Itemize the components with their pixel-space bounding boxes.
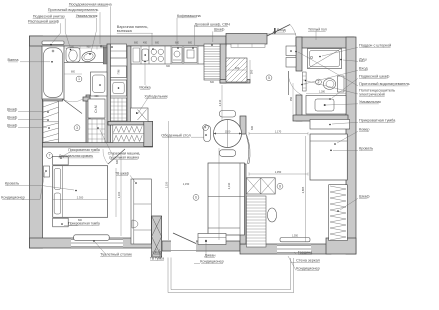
closet bottom label — [152, 249, 161, 255]
svg-text:600: 600 — [134, 42, 139, 45]
leader loop inner — [171, 258, 291, 290]
svg-text:Ст.М: Ст.М — [94, 105, 98, 113]
bottom wall bedroom1 — [30, 238, 153, 248]
bathroom1 top dims — [64, 47, 107, 50]
tv unit label — [115, 172, 137, 184]
svg-text:2,300: 2,300 — [77, 195, 84, 199]
svg-text:Ковер: Ковер — [359, 128, 370, 132]
dressing table — [74, 235, 110, 241]
svg-text:Кондиционер: Кондиционер — [1, 196, 24, 200]
bed bedroom1 — [53, 166, 108, 218]
svg-text:600: 600 — [188, 42, 193, 45]
dressing table label — [93, 240, 132, 256]
svg-text:2,865: 2,865 — [301, 186, 305, 193]
washer closet label1 — [108, 152, 141, 156]
window bedroom1 — [71, 239, 123, 248]
svg-text:Кондиционер: Кондиционер — [296, 267, 319, 271]
appliance column shelves — [111, 98, 127, 121]
closet label L2 — [7, 116, 49, 121]
svg-text:2: 2 — [318, 80, 320, 84]
sofa — [208, 163, 245, 235]
hob label line1 — [117, 25, 149, 29]
svg-text:Вход: Вход — [359, 67, 368, 71]
sink kitchen label — [139, 61, 151, 90]
window bedroom2 — [277, 245, 311, 254]
wall-hung toilet bathroom1 — [66, 48, 80, 63]
svg-text:6: 6 — [195, 196, 197, 200]
svg-text:950: 950 — [290, 96, 293, 101]
left exterior wall — [30, 36, 43, 248]
shower label — [340, 58, 366, 62]
svg-text:600: 600 — [235, 66, 240, 70]
top exterior wall — [30, 36, 227, 46]
tv bench bottom — [198, 234, 226, 245]
dishwasher — [133, 48, 140, 62]
svg-text:1100: 1100 — [225, 129, 231, 133]
svg-text:ПМ: ПМ — [117, 69, 121, 74]
ac bedroom2 label — [288, 256, 320, 271]
svg-text:1,150: 1,150 — [164, 181, 168, 188]
bedroom2 desk shelves — [246, 196, 266, 247]
bedside table top — [53, 156, 68, 165]
svg-text:электрический: электрический — [359, 93, 385, 97]
bathroom2 left wall upper — [296, 37, 302, 71]
bedroom1 room number — [47, 153, 53, 159]
svg-text:Умывальник: Умывальник — [76, 14, 98, 18]
coffee machine cabinet — [184, 48, 197, 63]
svg-text:Ванна: Ванна — [8, 58, 20, 62]
dishwasher label — [69, 2, 113, 48]
svg-text:Кровать: Кровать — [359, 147, 373, 151]
oven — [172, 48, 182, 63]
washing machine closet — [88, 99, 105, 118]
leader loop outer — [168, 258, 294, 293]
svg-text:Прикроватная тумба: Прикроватная тумба — [359, 119, 396, 123]
air conditioner bedroom1 — [44, 166, 50, 177]
svg-text:1,170: 1,170 — [275, 129, 282, 133]
hall room number circle — [74, 125, 80, 131]
right exterior wall — [346, 37, 356, 254]
bedroom2 wardrobe — [329, 185, 348, 241]
warm floor label — [308, 28, 327, 41]
bedside1 bottom label — [61, 222, 100, 226]
curtain label — [294, 251, 313, 255]
bedroom2 left wall upper — [240, 116, 246, 134]
washer closet label2 — [97, 127, 139, 159]
bed bedroom2 — [310, 134, 347, 180]
refrigerator — [131, 108, 149, 122]
svg-text:ТВ тумба: ТВ тумба — [150, 257, 164, 261]
water heater boxes — [286, 46, 296, 67]
svg-text:вытяжка: вытяжка — [117, 29, 133, 33]
bathroom2 interior dim — [306, 93, 346, 95]
kitchen cab label — [211, 28, 224, 46]
wall deco label — [291, 259, 320, 263]
bottom right corner block — [326, 238, 356, 254]
corridor dimension lines — [169, 85, 223, 240]
svg-text:7: 7 — [49, 154, 51, 158]
washing machine bathroom1 — [91, 72, 108, 96]
svg-text:Шкаф: Шкаф — [7, 116, 17, 120]
svg-text:450: 450 — [143, 42, 148, 45]
svg-text:520: 520 — [70, 45, 75, 48]
svg-text:Поддон с шторкой: Поддон с шторкой — [359, 44, 391, 48]
dishwasher box — [111, 66, 127, 78]
closet label L1 — [7, 108, 49, 113]
svg-text:Шкаф: Шкаф — [7, 124, 17, 128]
svg-text:Прикроватная тумба: Прикроватная тумба — [68, 148, 100, 152]
hob with 4 burners — [151, 49, 163, 61]
svg-text:600: 600 — [116, 159, 119, 164]
dining table label — [161, 134, 206, 138]
washbasin label top — [76, 14, 98, 55]
wall cab label — [329, 75, 389, 100]
svg-text:ТВ шкаф: ТВ шкаф — [115, 172, 129, 176]
svg-text:Подвесной шкаф: Подвесной шкаф — [359, 75, 389, 79]
bedroom2 headboard shelf — [310, 120, 350, 130]
bathroom1 kitchen dividing wall — [127, 46, 131, 146]
svg-text:Шкаф: Шкаф — [152, 251, 161, 255]
bathroom1 counter — [64, 61, 107, 63]
bathroom2 vanity — [306, 96, 346, 115]
bedroom2 dimension lines — [249, 134, 308, 242]
svg-text:300: 300 — [166, 65, 171, 68]
svg-text:Проточный водонагреватель: Проточный водонагреватель — [359, 82, 410, 86]
entry wall vent strip — [231, 44, 265, 47]
entrance door — [267, 25, 296, 37]
balcony door opening living — [171, 233, 196, 252]
svg-text:Шкаф: Шкаф — [359, 195, 369, 199]
ac living label — [194, 260, 224, 264]
entry closet dims — [228, 60, 250, 80]
toilet bathroom2 — [323, 76, 344, 92]
ac label left — [1, 170, 47, 199]
svg-text:Обеденный стол: Обеденный стол — [161, 134, 190, 138]
svg-text:1,280: 1,280 — [319, 91, 326, 94]
hob label underline and leader — [117, 32, 153, 34]
room number 2 circle — [316, 79, 322, 85]
dining chairs — [204, 111, 236, 157]
svg-text:Проточный водонагреватель: Проточный водонагреватель — [48, 8, 99, 12]
bed1 interior label — [59, 154, 94, 158]
svg-text:1: 1 — [78, 77, 80, 81]
water heater label — [48, 8, 102, 47]
svg-text:сушильная машина: сушильная машина — [109, 156, 139, 160]
sofa label — [205, 241, 216, 258]
entry2 label — [301, 67, 368, 86]
bathtub — [42, 46, 64, 99]
bedroom2 door leaf — [247, 135, 251, 164]
bottom wall living room — [162, 241, 240, 251]
kitchen sink — [142, 49, 149, 61]
desk chair — [267, 208, 276, 222]
dining room number circle — [203, 125, 209, 131]
svg-text:Посудомоечная машина: Посудомоечная машина — [69, 2, 113, 6]
svg-text:Гардина: Гардина — [298, 251, 313, 255]
bedroom2 windowsill table — [280, 238, 310, 242]
entry closet hatched — [226, 58, 247, 82]
bedroom2 dresser X — [246, 178, 275, 194]
bedroom2 room number — [277, 183, 283, 189]
svg-text:Диван: Диван — [205, 254, 216, 258]
oven label — [192, 23, 230, 49]
svg-text:1,150: 1,150 — [183, 182, 190, 186]
dining table — [214, 120, 242, 148]
bedroom1 door leaf — [103, 149, 125, 164]
washing closet left wall — [86, 95, 90, 143]
kitchen counter — [131, 46, 220, 64]
entrance label — [277, 28, 286, 32]
svg-text:600: 600 — [251, 125, 254, 130]
tv wardrobe unit — [131, 179, 151, 244]
carpet label — [334, 128, 369, 145]
duct shaft dark strip — [103, 47, 107, 64]
bathroom1 right wall — [107, 44, 111, 146]
shoe closet right block — [144, 121, 153, 146]
bathroom1 shelf — [42, 41, 64, 44]
washbasin2 label — [324, 100, 381, 106]
heater2 label — [295, 51, 409, 86]
hall wardrobe hatched — [43, 101, 59, 143]
hob label line2 — [117, 29, 133, 33]
entrance threshold line — [267, 33, 296, 35]
svg-text:Прикроватная тумба: Прикроватная тумба — [68, 222, 100, 226]
svg-text:Шкаф: Шкаф — [7, 108, 17, 112]
kitchen right wall — [220, 44, 226, 83]
tv bench bottom label — [150, 249, 164, 261]
bed1 label left — [5, 182, 77, 192]
svg-text:Кофемашина: Кофемашина — [177, 14, 202, 18]
towel rail label1 — [359, 89, 395, 93]
svg-text:1,100: 1,100 — [117, 191, 121, 198]
shower tray label — [319, 44, 391, 58]
shower tray — [308, 49, 342, 69]
svg-text:Вход: Вход — [277, 28, 286, 32]
kitchen tall pantry hatched — [204, 44, 220, 80]
hall bottom wall — [43, 143, 153, 148]
bedroom1 dimensions — [53, 152, 121, 236]
svg-text:Подвесной унитаз: Подвесной унитаз — [33, 15, 65, 19]
entry corridor dim — [292, 83, 294, 114]
fridge label — [136, 95, 168, 115]
washbasin bathroom1 — [81, 50, 97, 63]
svg-text:Умывальник: Умывальник — [359, 100, 381, 104]
bath label — [8, 58, 53, 63]
svg-text:5: 5 — [268, 76, 270, 80]
bedroom2 top dim ticks — [249, 132, 308, 176]
swing cabinet label — [28, 19, 61, 45]
bathroom2 door — [288, 71, 302, 95]
shoe cabinet zigzag — [113, 125, 144, 143]
svg-text:600: 600 — [210, 81, 215, 84]
bathroom2 bottom wall — [293, 115, 348, 121]
svg-text:600: 600 — [95, 95, 100, 98]
bathroom1 door leaf — [63, 99, 84, 114]
svg-text:Двухспальная кровать: Двухспальная кровать — [59, 154, 94, 158]
svg-text:620: 620 — [100, 45, 105, 48]
svg-text:4: 4 — [205, 126, 207, 130]
wardrobe2 label — [337, 195, 369, 212]
svg-text:2,130: 2,130 — [227, 182, 231, 189]
bathroom1 bottom wall right stub — [83, 97, 90, 101]
svg-text:3: 3 — [76, 126, 78, 130]
svg-text:Стена зеркал: Стена зеркал — [296, 259, 320, 263]
svg-text:800: 800 — [78, 219, 83, 222]
room number 1 circle — [76, 76, 82, 82]
living room number circle — [193, 195, 199, 201]
bottom wall bedroom2 — [240, 244, 331, 254]
svg-text:2,410: 2,410 — [218, 99, 222, 106]
bedside2 label — [329, 119, 396, 126]
svg-text:Кондиционер: Кондиционер — [200, 260, 223, 264]
entrance arrow — [273, 28, 277, 34]
entry top wall — [226, 34, 267, 45]
svg-text:Тёплый пол: Тёплый пол — [308, 28, 327, 32]
svg-text:Душ: Душ — [359, 58, 367, 62]
bed2 label — [330, 147, 373, 152]
svg-text:1,550: 1,550 — [292, 235, 299, 238]
bathroom2 left wall lower — [296, 95, 302, 121]
washer dryer lower box — [111, 80, 127, 96]
bedside1 top label — [60, 148, 100, 159]
svg-text:800: 800 — [71, 71, 76, 74]
closet label L3 — [7, 124, 50, 129]
entry bottom wall — [220, 80, 250, 84]
svg-text:Духовой шкаф, СВЧ: Духовой шкаф, СВЧ — [194, 23, 230, 27]
svg-text:Мойка: Мойка — [139, 86, 151, 90]
svg-text:Шкаф: Шкаф — [214, 28, 224, 32]
washing closet shelves — [88, 119, 105, 143]
svg-text:8: 8 — [279, 185, 281, 189]
towel rail label2 — [305, 80, 385, 97]
svg-text:600: 600 — [155, 42, 160, 45]
towel radiator — [303, 72, 307, 91]
bathroom2 top wall — [296, 37, 354, 48]
svg-text:600: 600 — [175, 42, 180, 45]
fridge niche wall — [108, 122, 153, 126]
wall toilet label — [33, 15, 72, 51]
svg-text:Распашной шкаф: Распашной шкаф — [28, 19, 59, 23]
svg-text:Кровать: Кровать — [5, 182, 19, 186]
bedside table bottom — [53, 218, 68, 227]
svg-text:500: 500 — [249, 69, 253, 74]
bathroom1 bottom wall left — [43, 97, 63, 101]
entry room number circle — [266, 75, 272, 81]
bedroom2 left wall lower — [240, 164, 246, 244]
svg-text:1,350: 1,350 — [275, 170, 282, 174]
structural column — [152, 216, 162, 257]
appliance column cabinet top — [111, 44, 127, 58]
coffee label — [177, 14, 202, 49]
svg-text:900: 900 — [87, 45, 92, 48]
